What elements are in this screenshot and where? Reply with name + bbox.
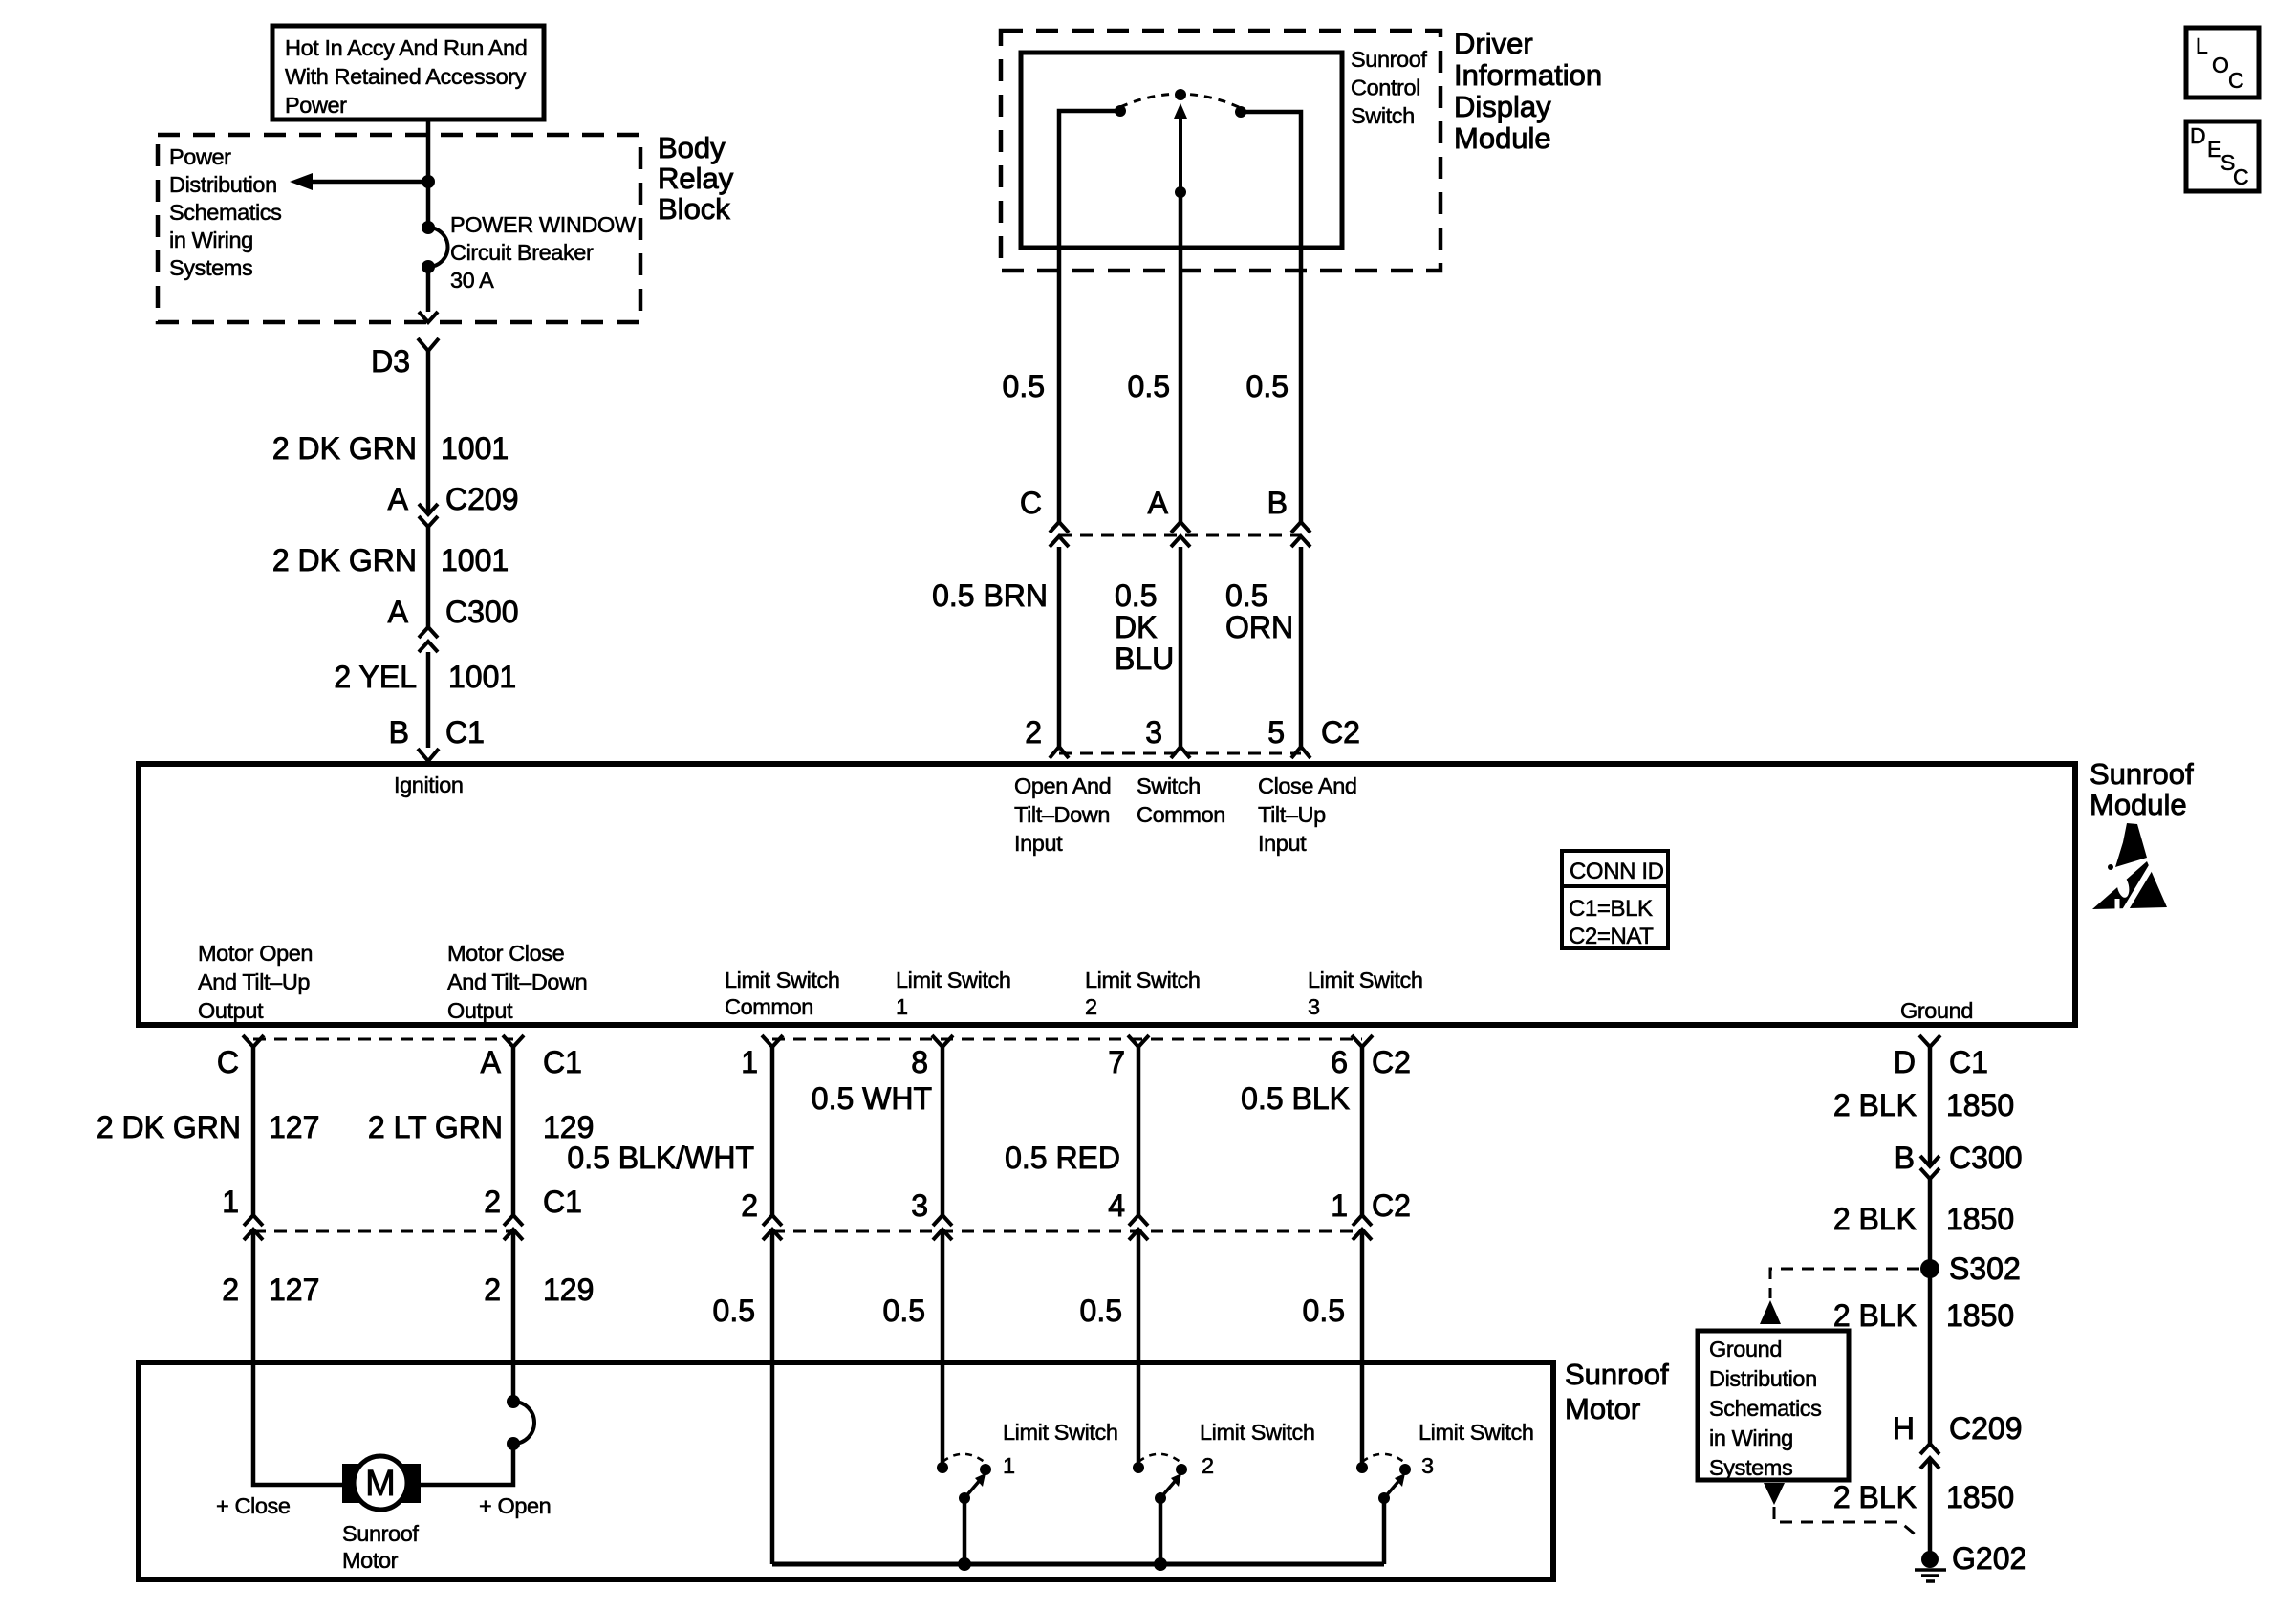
wire label 0.5 (A) bbox=[1128, 369, 1170, 403]
svg-text:Limit Switch: Limit Switch bbox=[1085, 968, 1201, 992]
pin label A bbox=[1148, 486, 1169, 520]
svg-text:Sunroof: Sunroof bbox=[1351, 47, 1427, 72]
wire label 0.5 RED bbox=[1005, 1141, 1120, 1175]
svg-text:5: 5 bbox=[1267, 715, 1285, 750]
svg-text:POWER WINDOW: POWER WINDOW bbox=[450, 212, 637, 237]
svg-text:Information: Information bbox=[1454, 58, 1602, 92]
limit switch bus wire bbox=[772, 1562, 1384, 1567]
svg-text:1: 1 bbox=[222, 1185, 239, 1219]
wire D3 to C209 bbox=[426, 351, 431, 514]
note Power Distribution Schematics in Wiring Systems bbox=[169, 144, 281, 280]
svg-text:Input: Input bbox=[1014, 831, 1063, 856]
connector fork pin B bbox=[418, 749, 439, 761]
svg-text:Output: Output bbox=[447, 998, 513, 1023]
svg-text:+ Close: + Close bbox=[216, 1493, 291, 1518]
svg-text:2: 2 bbox=[1085, 994, 1097, 1019]
svg-text:M: M bbox=[365, 1464, 396, 1504]
svg-text:A: A bbox=[481, 1045, 502, 1079]
svg-text:C1: C1 bbox=[1949, 1045, 1988, 1079]
connector pin A bbox=[1171, 522, 1190, 547]
svg-text:2: 2 bbox=[741, 1188, 758, 1223]
wire C to module pin 2 bbox=[1057, 547, 1062, 747]
svg-text:2: 2 bbox=[484, 1185, 501, 1219]
svg-text:Sunroof: Sunroof bbox=[342, 1521, 419, 1546]
svg-text:C1: C1 bbox=[543, 1185, 582, 1219]
pin label A C209 bbox=[388, 482, 519, 516]
svg-text:1001: 1001 bbox=[441, 543, 509, 577]
wire label 0.5 (B) bbox=[1246, 369, 1289, 403]
arrow at relay block exit bbox=[419, 312, 438, 322]
svg-text:0.5: 0.5 bbox=[1115, 578, 1157, 613]
wire label 2 129 bbox=[484, 1273, 594, 1307]
svg-text:2: 2 bbox=[222, 1273, 239, 1307]
svg-text:C300: C300 bbox=[445, 595, 519, 629]
svg-text:Tilt–Down: Tilt–Down bbox=[1014, 802, 1110, 827]
wire label 2 YEL 1001 bbox=[334, 660, 516, 694]
wire label 2 LT GRN 129 bbox=[368, 1110, 594, 1144]
svg-text:Tilt–Up: Tilt–Up bbox=[1258, 802, 1326, 827]
connector C300 (ground) bbox=[1920, 1156, 1939, 1179]
svg-text:2: 2 bbox=[1025, 715, 1042, 750]
wire limit switch common lower bbox=[770, 1229, 775, 1564]
svg-text:E: E bbox=[2207, 137, 2221, 162]
svg-text:1850: 1850 bbox=[1946, 1298, 2014, 1333]
wire label 0.5 (ls3) bbox=[1303, 1294, 1345, 1328]
svg-text:0.5 BLK: 0.5 BLK bbox=[1241, 1081, 1350, 1116]
svg-text:Circuit Breaker: Circuit Breaker bbox=[450, 240, 594, 265]
pin label D C1 bbox=[1894, 1045, 1988, 1079]
module pin 2 fork bbox=[1050, 747, 1069, 758]
svg-text:Power: Power bbox=[285, 93, 347, 118]
svg-text:Motor: Motor bbox=[1565, 1392, 1640, 1425]
wire label 2 DK GRN 1001 bbox=[272, 431, 509, 466]
svg-text:Schematics: Schematics bbox=[1709, 1396, 1821, 1421]
svg-text:0.5 BLK/WHT: 0.5 BLK/WHT bbox=[567, 1141, 754, 1175]
svg-text:Systems: Systems bbox=[169, 255, 252, 280]
svg-text:Limit Switch: Limit Switch bbox=[1419, 1420, 1534, 1445]
pin label 1 bbox=[741, 1045, 758, 1079]
pin label 8 bbox=[911, 1045, 928, 1079]
pin label H C209 bbox=[1893, 1411, 2023, 1446]
svg-text:And Tilt–Down: And Tilt–Down bbox=[447, 969, 587, 994]
label Limit Switch 2 bbox=[1200, 1420, 1315, 1478]
svg-text:1850: 1850 bbox=[1946, 1480, 2014, 1514]
svg-text:Body: Body bbox=[658, 131, 726, 164]
svg-text:0.5 BRN: 0.5 BRN bbox=[932, 578, 1048, 613]
svg-text:C: C bbox=[1020, 486, 1042, 520]
connector C209 bbox=[419, 504, 438, 527]
wire limit switch 2 upper bbox=[1137, 1047, 1141, 1215]
module pin 5 fork bbox=[1291, 747, 1310, 758]
pin label 3 bbox=[1145, 715, 1162, 750]
module label Ignition bbox=[394, 772, 464, 797]
svg-text:Sunroof: Sunroof bbox=[1565, 1358, 1669, 1391]
label S302 bbox=[1949, 1251, 2021, 1286]
arrow to power distribution schematics bbox=[290, 173, 428, 190]
limit switch 1 bbox=[937, 1454, 991, 1571]
svg-text:Relay: Relay bbox=[658, 162, 734, 195]
svg-text:1: 1 bbox=[741, 1045, 758, 1079]
module label Limit Switch Common bbox=[725, 968, 840, 1019]
module label Limit Switch 2 bbox=[1085, 968, 1201, 1019]
pin label C bbox=[1020, 486, 1042, 520]
wire motor close output lower bbox=[406, 1444, 513, 1485]
svg-text:0.5 RED: 0.5 RED bbox=[1005, 1141, 1120, 1175]
limit switch 3 bbox=[1356, 1454, 1411, 1564]
wire label 2 BLK 1850 (1) bbox=[1833, 1088, 2014, 1122]
svg-text:4: 4 bbox=[1108, 1188, 1125, 1223]
svg-text:Input: Input bbox=[1258, 831, 1307, 856]
svg-text:Close And: Close And bbox=[1258, 773, 1357, 798]
svg-text:2 BLK: 2 BLK bbox=[1833, 1298, 1917, 1333]
wire C209 to C300 bbox=[426, 527, 431, 627]
svg-text:Limit Switch: Limit Switch bbox=[896, 968, 1011, 992]
inline connector dashed line C1 bbox=[253, 1230, 513, 1233]
pin label 4 (connector C2) bbox=[1108, 1188, 1125, 1223]
svg-text:B: B bbox=[389, 715, 409, 750]
module label Close And Tilt-Up Input bbox=[1258, 773, 1357, 856]
svg-text:3: 3 bbox=[911, 1188, 928, 1223]
module label Open And Tilt-Down Input bbox=[1014, 773, 1111, 856]
svg-text:S302: S302 bbox=[1949, 1251, 2021, 1286]
module pin 6 fork bbox=[1352, 1035, 1373, 1047]
svg-text:Limit Switch: Limit Switch bbox=[725, 968, 840, 992]
connector C1 pin 1 bbox=[244, 1215, 263, 1240]
svg-text:in Wiring: in Wiring bbox=[169, 228, 253, 252]
wire label 0.5 BLK bbox=[1241, 1081, 1350, 1116]
svg-text:C2=NAT: C2=NAT bbox=[1569, 924, 1654, 949]
connector C300 bbox=[419, 627, 438, 652]
module pin 1 fork bbox=[762, 1035, 783, 1047]
label G202 bbox=[1952, 1541, 2026, 1576]
module label Limit Switch 3 bbox=[1308, 968, 1423, 1019]
pin label 1 C2 (connector) bbox=[1331, 1188, 1411, 1223]
svg-text:3: 3 bbox=[1421, 1453, 1434, 1478]
svg-text:C1: C1 bbox=[445, 715, 485, 750]
svg-text:7: 7 bbox=[1108, 1045, 1125, 1079]
LOC reference box bbox=[2186, 28, 2259, 98]
dashed reference to ground distribution (up) bbox=[1760, 1269, 1919, 1324]
ESD sensitivity symbol bbox=[2092, 823, 2167, 912]
connector pin C bbox=[1050, 522, 1069, 547]
connector pin B bbox=[1291, 522, 1310, 547]
switch actuator arrow bbox=[1174, 103, 1187, 192]
module pin 7 fork bbox=[1128, 1035, 1149, 1047]
CONN ID table bbox=[1562, 851, 1668, 949]
ground wire upper bbox=[1928, 1047, 1933, 1166]
svg-text:C1=BLK: C1=BLK bbox=[1569, 896, 1653, 922]
svg-text:8: 8 bbox=[911, 1045, 928, 1079]
wire label 2 BLK 1850 (3) bbox=[1833, 1298, 2014, 1333]
svg-text:Ignition: Ignition bbox=[394, 772, 464, 797]
svg-text:0.5: 0.5 bbox=[713, 1294, 755, 1328]
svg-text:Limit Switch: Limit Switch bbox=[1003, 1420, 1118, 1445]
svg-text:Sunroof: Sunroof bbox=[2090, 757, 2194, 791]
svg-text:Driver: Driver bbox=[1454, 27, 1533, 60]
wire label 0.5 ORN bbox=[1225, 578, 1293, 644]
wire label 2 DK GRN 127 bbox=[97, 1110, 320, 1144]
connector C209 (ground) bbox=[1920, 1444, 1939, 1469]
label Driver Information Display Module bbox=[1454, 27, 1602, 155]
svg-text:Block: Block bbox=[658, 192, 730, 226]
wire limit switch 3 lower bbox=[1360, 1229, 1365, 1464]
svg-text:A: A bbox=[388, 595, 409, 629]
switch contact left node bbox=[1115, 105, 1126, 117]
wire label 2 DK GRN 1001 (2) bbox=[272, 543, 509, 577]
module pin 3 fork bbox=[1171, 747, 1190, 758]
switch dashed travel arc bbox=[1120, 94, 1241, 108]
svg-text:0.5: 0.5 bbox=[1003, 369, 1045, 403]
svg-text:0.5: 0.5 bbox=[883, 1294, 925, 1328]
pin label 2 bbox=[1025, 715, 1042, 750]
svg-text:Motor Close: Motor Close bbox=[447, 941, 565, 966]
svg-text:Distribution: Distribution bbox=[1709, 1366, 1817, 1391]
svg-text:Switch: Switch bbox=[1351, 103, 1415, 128]
wire label 0.5 BRN bbox=[932, 578, 1048, 613]
svg-text:C2: C2 bbox=[1372, 1188, 1411, 1223]
svg-text:D: D bbox=[2190, 123, 2205, 148]
svg-text:And Tilt–Up: And Tilt–Up bbox=[198, 969, 310, 994]
ground wire lower bbox=[1928, 1458, 1933, 1553]
svg-text:Module: Module bbox=[1454, 121, 1551, 155]
svg-text:in Wiring: in Wiring bbox=[1709, 1425, 1793, 1450]
module pin D fork (ground) bbox=[1919, 1035, 1940, 1047]
svg-text:1850: 1850 bbox=[1946, 1088, 2014, 1122]
wire from power note box bbox=[426, 120, 431, 228]
svg-text:Open And: Open And bbox=[1014, 773, 1111, 798]
wire label 0.5 (C) bbox=[1003, 369, 1045, 403]
switch contact right node bbox=[1235, 106, 1246, 118]
switch contact right wire bbox=[1243, 112, 1301, 248]
label Body Relay Block bbox=[658, 131, 734, 226]
svg-text:2 BLK: 2 BLK bbox=[1833, 1088, 1917, 1122]
switch top contact node bbox=[1175, 89, 1186, 100]
svg-text:0.5: 0.5 bbox=[1128, 369, 1170, 403]
svg-text:B: B bbox=[1267, 486, 1288, 520]
pin label B C1 bbox=[389, 715, 485, 750]
label Sunroof Module bbox=[2090, 757, 2194, 821]
svg-text:2 BLK: 2 BLK bbox=[1833, 1480, 1917, 1514]
label Sunroof Motor bbox=[1565, 1358, 1669, 1425]
svg-text:Display: Display bbox=[1454, 90, 1551, 123]
sunroof motor box bbox=[139, 1362, 1553, 1579]
wire limit switch 2 lower bbox=[1137, 1229, 1141, 1464]
svg-text:Systems: Systems bbox=[1709, 1455, 1792, 1480]
pin label 5 bbox=[1267, 715, 1285, 750]
connector C2 pin 4 bbox=[1129, 1215, 1148, 1240]
module pins 2 3 5 dashed line bbox=[1059, 752, 1301, 755]
svg-text:Limit Switch: Limit Switch bbox=[1200, 1420, 1315, 1445]
svg-text:A: A bbox=[1148, 486, 1169, 520]
label Sunroof Control Switch bbox=[1351, 47, 1427, 128]
svg-text:3: 3 bbox=[1308, 994, 1320, 1019]
connector row C A B dashed line bbox=[1059, 534, 1301, 537]
svg-text:129: 129 bbox=[543, 1273, 594, 1307]
svg-text:C300: C300 bbox=[1949, 1141, 2023, 1175]
svg-text:0.5: 0.5 bbox=[1225, 578, 1267, 613]
svg-text:Motor Open: Motor Open bbox=[198, 941, 313, 966]
svg-text:H: H bbox=[1893, 1411, 1915, 1446]
wire limit switch 3 upper bbox=[1360, 1047, 1365, 1215]
inline connector dashed line C2 bbox=[772, 1230, 1362, 1233]
svg-text:D3: D3 bbox=[371, 344, 410, 379]
module label Ground bbox=[1900, 998, 1973, 1023]
svg-text:2 YEL: 2 YEL bbox=[334, 660, 417, 694]
pin label C (motor open output) bbox=[217, 1045, 239, 1079]
switch common wire bbox=[1179, 192, 1183, 248]
module label Motor Close And Tilt-Down Output bbox=[447, 941, 587, 1023]
svg-text:C: C bbox=[217, 1045, 239, 1079]
svg-text:L: L bbox=[2196, 33, 2208, 58]
svg-text:Motor: Motor bbox=[342, 1548, 399, 1573]
svg-text:127: 127 bbox=[269, 1110, 319, 1144]
wire motor close output (129) upper bbox=[511, 1047, 516, 1215]
connector C2 pin 2 (common) bbox=[763, 1215, 782, 1240]
wire label 0.5 BLK/WHT bbox=[567, 1141, 754, 1175]
wire label 0.5 DK BLU bbox=[1115, 578, 1174, 676]
connector fork D3 bbox=[418, 338, 439, 351]
svg-text:1850: 1850 bbox=[1946, 1202, 2014, 1236]
pin label C2 bbox=[1321, 715, 1360, 750]
label + Open bbox=[479, 1493, 551, 1518]
ground wire mid bbox=[1928, 1179, 1933, 1444]
connector C2 pin 1 bbox=[1353, 1215, 1372, 1240]
wire breaker to relay block edge bbox=[426, 267, 431, 312]
driver information display module dashed box bbox=[1001, 31, 1440, 271]
wire motor close output mid bbox=[511, 1229, 516, 1402]
pin label A C1 bbox=[481, 1045, 582, 1079]
svg-text:C: C bbox=[2233, 164, 2248, 189]
connector C1 pin 2 bbox=[504, 1215, 523, 1240]
svg-text:Schematics: Schematics bbox=[169, 200, 281, 225]
pin label 7 bbox=[1108, 1045, 1125, 1079]
svg-text:+ Open: + Open bbox=[479, 1493, 551, 1518]
thermal protector in motor lead bbox=[507, 1395, 534, 1450]
DESC reference box bbox=[2186, 121, 2259, 191]
svg-text:6: 6 bbox=[1331, 1045, 1348, 1079]
svg-text:2 BLK: 2 BLK bbox=[1833, 1202, 1917, 1236]
wire label 2 127 bbox=[222, 1273, 319, 1307]
module pin 8 fork bbox=[932, 1035, 953, 1047]
svg-text:2: 2 bbox=[484, 1273, 501, 1307]
svg-text:127: 127 bbox=[269, 1273, 319, 1307]
svg-text:2 LT GRN: 2 LT GRN bbox=[368, 1110, 503, 1144]
module label Motor Open And Tilt-Up Output bbox=[198, 941, 313, 1023]
module pins C A dashed line bbox=[253, 1038, 513, 1041]
ground G202 bbox=[1915, 1551, 1946, 1581]
wire switch C to connector bbox=[1057, 248, 1062, 522]
limit switch 2 bbox=[1133, 1454, 1187, 1571]
module pins 1 8 7 6 dashed line bbox=[772, 1038, 1362, 1041]
svg-text:Power: Power bbox=[169, 144, 231, 169]
svg-text:1: 1 bbox=[1331, 1188, 1348, 1223]
svg-text:C2: C2 bbox=[1372, 1045, 1411, 1079]
svg-text:With Retained Accessory: With Retained Accessory bbox=[285, 64, 527, 89]
svg-text:B: B bbox=[1895, 1141, 1915, 1175]
pin label A C300 bbox=[388, 595, 519, 629]
wire A to module pin 3 bbox=[1179, 547, 1183, 747]
splice S302 bbox=[1920, 1259, 1939, 1278]
pin label 1 (connector C1) bbox=[222, 1185, 239, 1219]
svg-text:Limit Switch: Limit Switch bbox=[1308, 968, 1423, 992]
svg-text:1: 1 bbox=[1003, 1453, 1015, 1478]
svg-text:C1: C1 bbox=[543, 1045, 582, 1079]
svg-text:2 DK GRN: 2 DK GRN bbox=[97, 1110, 241, 1144]
svg-text:Ground: Ground bbox=[1900, 998, 1973, 1023]
pin label B C300 bbox=[1895, 1141, 2023, 1175]
svg-text:2 DK GRN: 2 DK GRN bbox=[272, 431, 417, 466]
circuit breaker POWER WINDOW 30 A bbox=[422, 221, 447, 273]
pin label 2 C1 bbox=[484, 1185, 582, 1219]
wire limit switch 1 lower bbox=[941, 1229, 945, 1464]
wire switch A to connector bbox=[1179, 248, 1183, 522]
svg-text:129: 129 bbox=[543, 1110, 594, 1144]
svg-text:1001: 1001 bbox=[448, 660, 516, 694]
wire C300 to sunroof module bbox=[426, 652, 431, 748]
svg-text:C209: C209 bbox=[1949, 1411, 2023, 1446]
body relay block dashed box bbox=[158, 135, 640, 322]
label Limit Switch 3 bbox=[1419, 1420, 1534, 1478]
svg-text:0.5: 0.5 bbox=[1246, 369, 1289, 403]
sunroof control switch box bbox=[1021, 53, 1342, 248]
wire label 2 BLK 1850 (4) bbox=[1833, 1480, 2014, 1514]
svg-text:1: 1 bbox=[896, 994, 908, 1019]
power source note box bbox=[272, 26, 544, 120]
motor M1 sunroof motor bbox=[342, 1456, 421, 1510]
ground distribution note box bbox=[1698, 1331, 1849, 1480]
wire limit switch 1 upper bbox=[941, 1047, 945, 1215]
svg-text:C2: C2 bbox=[1321, 715, 1360, 750]
wire switch B to connector bbox=[1299, 248, 1304, 522]
pin label 2 (limit common) bbox=[741, 1188, 758, 1223]
svg-text:G202: G202 bbox=[1952, 1541, 2026, 1576]
svg-text:A: A bbox=[388, 482, 409, 516]
svg-text:2: 2 bbox=[1202, 1453, 1214, 1478]
svg-text:ORN: ORN bbox=[1225, 610, 1293, 644]
wire label 2 BLK 1850 (2) bbox=[1833, 1202, 2014, 1236]
wire label 0.5 (ls1) bbox=[883, 1294, 925, 1328]
node junction to power distribution bbox=[422, 175, 435, 188]
label Limit Switch 1 bbox=[1003, 1420, 1118, 1478]
switch common node bbox=[1175, 186, 1186, 198]
wire label 0.5 (common) bbox=[713, 1294, 755, 1328]
svg-text:Switch: Switch bbox=[1137, 773, 1201, 798]
svg-text:O: O bbox=[2212, 53, 2229, 77]
pin label 6 C2 bbox=[1331, 1045, 1411, 1079]
module pin A fork bbox=[503, 1035, 524, 1047]
svg-text:3: 3 bbox=[1145, 715, 1162, 750]
label POWER WINDOW Circuit Breaker 30 A bbox=[450, 212, 637, 293]
svg-text:2 DK GRN: 2 DK GRN bbox=[272, 543, 417, 577]
label + Close bbox=[216, 1493, 291, 1518]
svg-text:Distribution: Distribution bbox=[169, 172, 277, 197]
sunroof module box bbox=[139, 764, 2075, 1025]
module label Limit Switch 1 bbox=[896, 968, 1011, 1019]
wire motor open output lower bbox=[253, 1229, 355, 1485]
wire B to module pin 5 bbox=[1299, 547, 1304, 747]
label Sunroof Motor (component) bbox=[342, 1521, 419, 1573]
svg-text:1001: 1001 bbox=[441, 431, 509, 466]
wire label 0.5 WHT bbox=[812, 1081, 932, 1116]
svg-text:C209: C209 bbox=[445, 482, 519, 516]
svg-text:CONN ID: CONN ID bbox=[1570, 859, 1664, 884]
svg-text:Common: Common bbox=[725, 994, 813, 1019]
svg-text:BLU: BLU bbox=[1115, 642, 1174, 676]
svg-text:30 A: 30 A bbox=[450, 268, 494, 293]
svg-text:0.5: 0.5 bbox=[1080, 1294, 1122, 1328]
pin label 3 (connector C2) bbox=[911, 1188, 928, 1223]
wire motor open output (127) upper bbox=[251, 1047, 256, 1215]
